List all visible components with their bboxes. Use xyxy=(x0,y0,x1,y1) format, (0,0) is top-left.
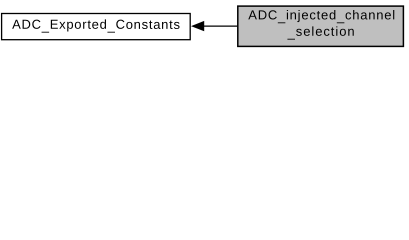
edge wire shaft xyxy=(204,25,238,27)
background xyxy=(0,0,409,52)
node ADC_injected_channel_selection box (current, grey) xyxy=(238,6,404,46)
svg-text:ADC_injected_channel: ADC_injected_channel xyxy=(248,7,395,23)
edge arrowhead xyxy=(192,21,204,31)
node ADC_Exported_Constants box xyxy=(2,14,191,40)
svg-text:ADC_Exported_Constants: ADC_Exported_Constants xyxy=(12,17,180,33)
svg-text:_selection: _selection xyxy=(287,24,355,40)
